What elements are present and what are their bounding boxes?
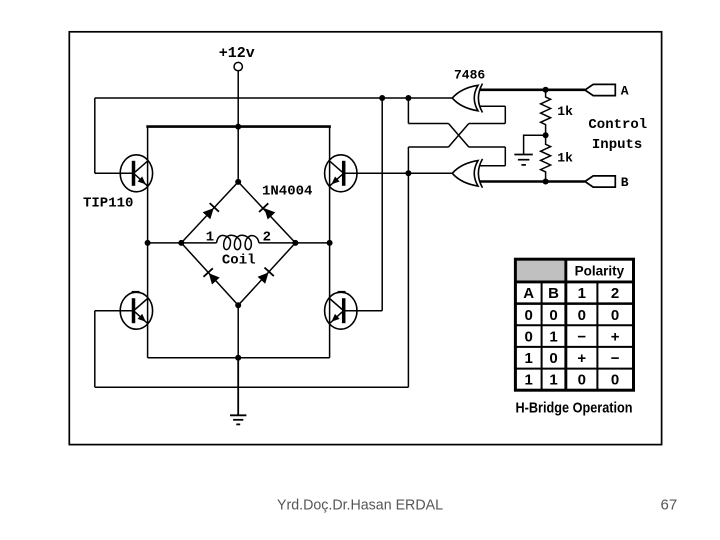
- transistor Q2 (TIP110, top-right): [325, 155, 357, 192]
- svg-text:TIP110: TIP110: [83, 196, 133, 212]
- svg-text:−: −: [611, 350, 620, 367]
- svg-text:B: B: [548, 285, 559, 302]
- wire: net2 bottom return (y=387): [95, 386, 409, 388]
- svg-text:Inputs: Inputs: [592, 137, 642, 153]
- svg-text:1: 1: [206, 229, 214, 245]
- table data row 3: 1 0 + −: [525, 350, 620, 367]
- svg-text:+: +: [611, 328, 620, 345]
- wire: Q3 base wire: [95, 310, 135, 312]
- wire: net1 drop to Q4 base (vertical): [381, 98, 383, 311]
- diode D4 (1N4004, bottom-right): [258, 268, 274, 284]
- diode D2 (1N4004, top-right): [259, 203, 275, 219]
- table data row 4: 1 1 0 0: [525, 372, 620, 389]
- table data row 1: 0 0 0 0: [525, 307, 620, 324]
- wire: U1B upper input stub: [480, 165, 506, 167]
- ground (resistor divider): [514, 155, 532, 165]
- wire: left rail to diamond left vertex: [148, 242, 182, 244]
- truth table: H-bridge operation: [514, 259, 634, 390]
- svg-text:0: 0: [578, 372, 586, 389]
- wire: Q4 base wire: [343, 310, 383, 312]
- svg-text:H-Bridge Operation: H-Bridge Operation: [516, 400, 633, 417]
- svg-text:1: 1: [549, 328, 557, 345]
- wire: R midpoint to ground: [524, 135, 546, 154]
- diode D3 (1N4004, bottom-left): [204, 268, 220, 284]
- svg-text:7486: 7486: [454, 68, 485, 83]
- resistor R1 (1k, upper): [541, 90, 551, 136]
- svg-text:0: 0: [549, 307, 557, 324]
- node: right rail / coil wire junction: [327, 240, 333, 246]
- wire: gate U1A output to left (net 1): [95, 97, 453, 99]
- wire: Q1 base wire: [95, 172, 135, 174]
- svg-text:1: 1: [525, 350, 533, 367]
- wire: net1 drop to cross-coupling: [407, 98, 409, 123]
- connector A (input tag): [585, 84, 615, 95]
- svg-text:Coil: Coil: [222, 253, 256, 269]
- svg-text:A: A: [523, 285, 534, 302]
- node: diamond top vertex: [235, 179, 241, 185]
- node: diamond bottom vertex: [235, 302, 241, 308]
- svg-text:0: 0: [549, 350, 557, 367]
- svg-text:Yrd.Doç.Dr.Hasan ERDAL: Yrd.Doç.Dr.Hasan ERDAL: [277, 497, 443, 514]
- svg-text:+12v: +12v: [219, 45, 255, 62]
- wire: diamond edge top-right: [238, 182, 295, 243]
- svg-text:−: −: [577, 328, 586, 345]
- svg-text:1: 1: [578, 285, 586, 302]
- node: diamond left vertex: [178, 240, 184, 246]
- wire: net1 left drop to Q1 base: [94, 98, 96, 173]
- wire: input B (thick): [480, 180, 585, 183]
- node: net1 / Q4-base drop junction: [379, 95, 385, 101]
- node: A wire / R1 junction: [543, 87, 549, 93]
- xor gate U1B (7486, bottom): [452, 159, 482, 188]
- wire: right rail: [329, 127, 331, 358]
- table header row A B 1 2: [523, 285, 619, 302]
- svg-text:1k: 1k: [557, 104, 573, 119]
- transistor Q4 (TIP110, bottom-right): [325, 292, 357, 329]
- svg-text:A: A: [621, 84, 629, 99]
- svg-text:67: 67: [661, 497, 678, 514]
- wire: diamond right vertex to right rail: [295, 242, 329, 244]
- svg-text:0: 0: [525, 307, 533, 324]
- ground (main, below bridge): [230, 358, 246, 425]
- node: B wire / R2 junction: [543, 179, 549, 185]
- wire: diamond bottom vertex down to bottom rail: [237, 305, 239, 358]
- +12v terminal circle: [234, 62, 242, 70]
- wire: net2 horizontal to U1A input riser: [469, 123, 506, 125]
- svg-text:B: B: [621, 175, 629, 190]
- wire: input A (thick): [480, 89, 585, 92]
- svg-text:0: 0: [525, 328, 533, 345]
- wire: gate U1B output to Q2 base (net 2): [343, 172, 453, 174]
- xor gate U1A (7486, top): [452, 84, 482, 113]
- svg-text:Polarity: Polarity: [575, 264, 625, 279]
- svg-text:2: 2: [263, 229, 271, 245]
- node: +12v / top rail junction: [235, 124, 241, 130]
- svg-text:1N4004: 1N4004: [262, 183, 312, 199]
- wire: bottom rail: [148, 357, 330, 359]
- wire: net1 horizontal into X: [408, 123, 448, 125]
- svg-text:1: 1: [549, 372, 557, 389]
- wire: net1 horizontal to U1B input riser: [469, 146, 506, 148]
- svg-text:2: 2: [611, 285, 619, 302]
- svg-text:1: 1: [525, 372, 533, 389]
- svg-text:1k: 1k: [557, 151, 573, 166]
- connector B (input tag): [585, 176, 615, 187]
- coil L1 (with loops): [181, 235, 295, 249]
- svg-text:0: 0: [611, 372, 619, 389]
- svg-text:+: +: [577, 350, 586, 367]
- wire: net2 riser up to U1A lower input: [504, 106, 506, 123]
- table data row 2: 0 1 − +: [525, 328, 620, 345]
- node: left rail / coil wire junction: [145, 240, 151, 246]
- node: net1 / cross-coupling drop junction: [405, 95, 411, 101]
- wire: net2 horizontal into X: [408, 146, 448, 148]
- transistor Q1 (TIP110, top-left): [120, 155, 152, 192]
- wire: U1A lower input stub: [480, 105, 506, 107]
- resistor R2 (1k, lower): [541, 135, 551, 181]
- svg-text:0: 0: [578, 307, 586, 324]
- wire: X diagonal (net2, up-right): [449, 124, 469, 148]
- wire: net1 riser down to U1B upper input: [504, 147, 506, 166]
- wire: diamond edge bottom-left: [181, 243, 238, 305]
- node: diamond right vertex: [292, 240, 298, 246]
- wire: net2 left riser to Q3 base: [94, 311, 96, 388]
- node: R1/R2 midpoint junction: [543, 132, 549, 138]
- diode D1 (1N4004, top-left): [203, 203, 219, 219]
- wire: diamond edge top-left: [181, 182, 238, 243]
- node: net2 junction on Q2 base wire: [405, 170, 411, 176]
- wire: left rail: [147, 127, 149, 358]
- transistor Q3 (TIP110, bottom-left): [120, 292, 152, 329]
- svg-text:0: 0: [611, 307, 619, 324]
- slide border frame: [69, 32, 661, 445]
- wire: X diagonal (net1, down-right): [449, 124, 469, 148]
- svg-text:Control: Control: [588, 117, 647, 133]
- wire: net2 vertical (to X above, to y387 below): [407, 147, 409, 387]
- wire: top rail (thick, +12v bus): [146, 125, 331, 128]
- wire: +12v down to diamond top vertex: [237, 71, 239, 182]
- node: bottom rail / ground junction: [235, 355, 241, 361]
- wire: diamond edge bottom-right: [238, 243, 295, 305]
